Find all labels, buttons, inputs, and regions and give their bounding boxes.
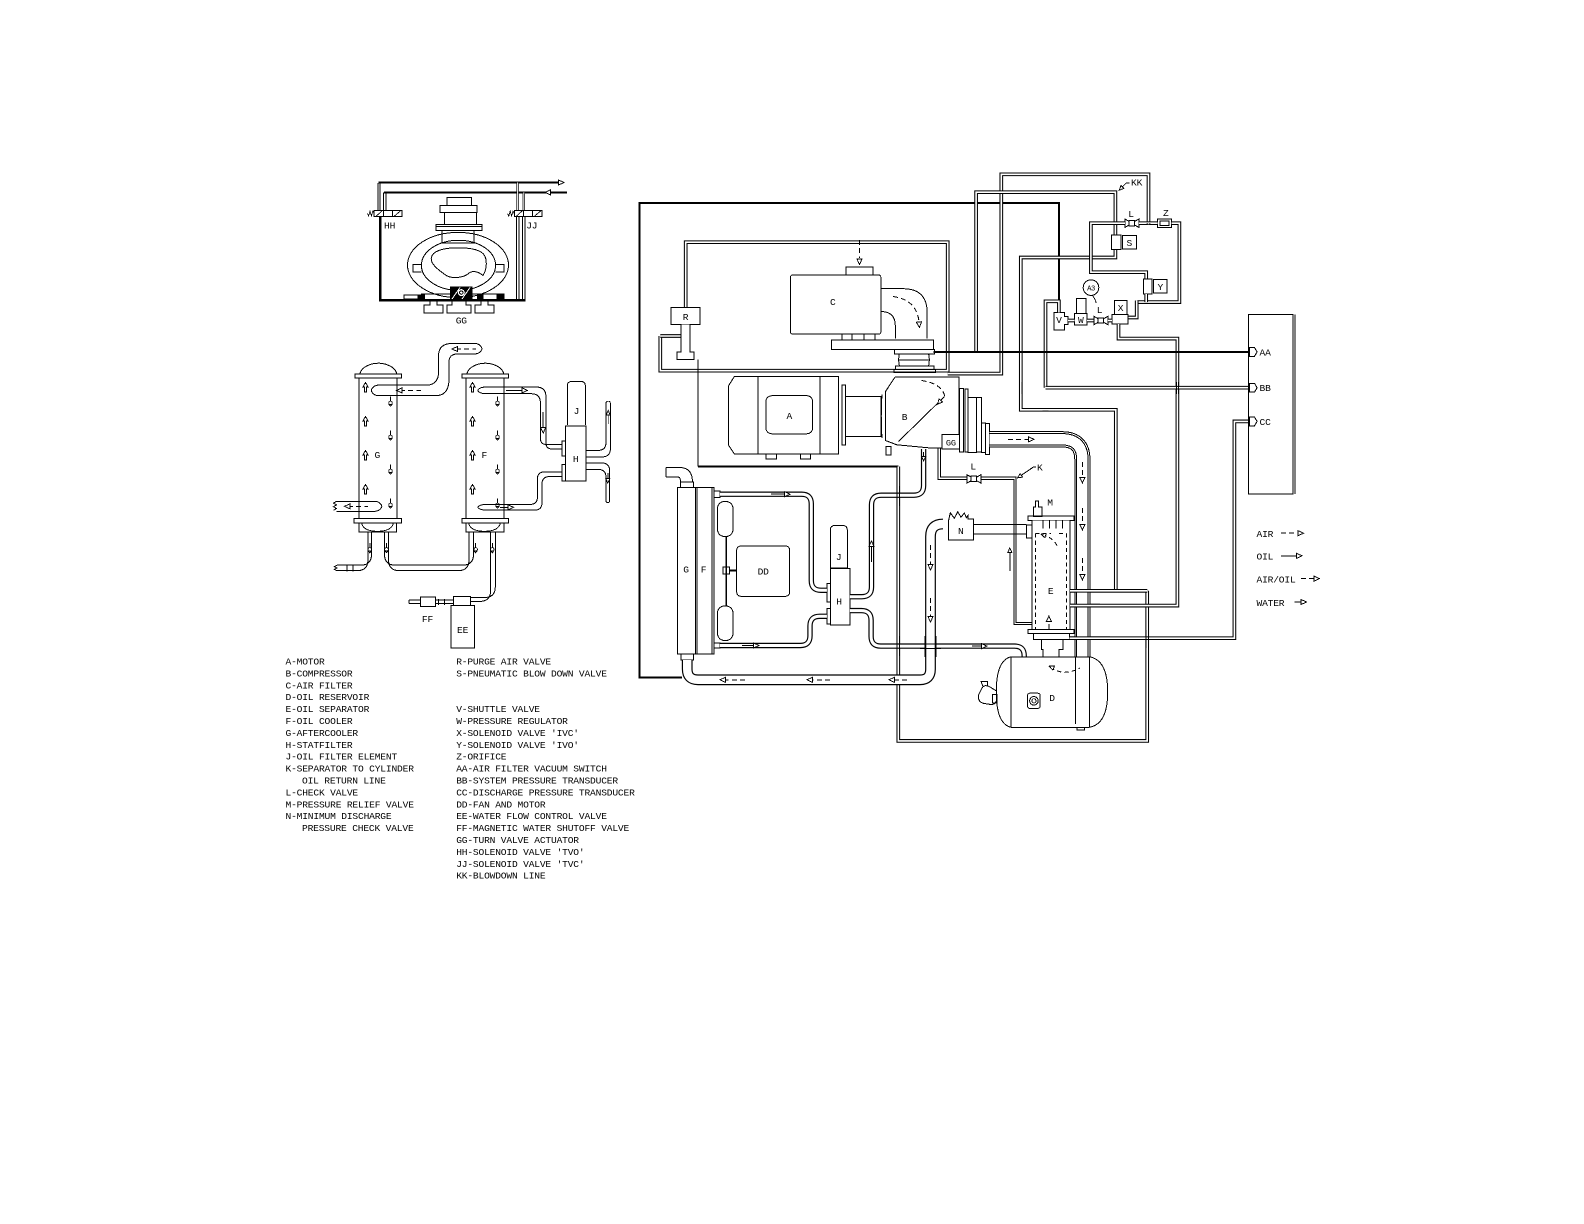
svg-text:Y: Y [1158, 282, 1164, 293]
statfilter H (left section) [566, 426, 587, 481]
radiator F upper outlet stub [714, 491, 720, 498]
svg-text:BB: BB [1260, 383, 1272, 394]
svg-text:B: B [902, 412, 908, 423]
oil arrow up to GG [869, 541, 874, 547]
svg-text:A3: A3 [1087, 286, 1095, 294]
oil arrow to D [981, 644, 987, 649]
fan hub [723, 567, 730, 574]
svg-text:JJ: JJ [526, 220, 537, 231]
oil arrow to H lower [753, 643, 759, 648]
oil flow arrow F lower [500, 506, 510, 508]
label K with leader [1018, 467, 1034, 478]
wire: R to base manifold [697, 360, 699, 467]
E inlet flange [1027, 525, 1032, 538]
svg-text:F-OIL COOLER: F-OIL COOLER [286, 716, 353, 727]
svg-text:GG-TURN VALVE ACTUATOR: GG-TURN VALVE ACTUATOR [456, 835, 579, 846]
svg-text:KK: KK [1131, 178, 1143, 189]
union tick 1 [346, 564, 348, 571]
pipe: F top outlet to H (left section) [484, 387, 546, 444]
svg-text:HH: HH [384, 220, 395, 231]
svg-text:AA-AIR FILTER VACUUM SWITCH: AA-AIR FILTER VACUUM SWITCH [456, 764, 607, 775]
compressor top cap [447, 197, 471, 205]
svg-text:W-PRESSURE REGULATOR: W-PRESSURE REGULATOR [456, 716, 568, 727]
svg-text:G-AFTERCOOLER: G-AFTERCOOLER [286, 728, 359, 739]
pipe: compressor discharge to reservoir D [990, 439, 1083, 724]
svg-text:D-OIL RESERVOIR: D-OIL RESERVOIR [286, 692, 370, 703]
aftercooler/oil cooler radiator G|F (main) [677, 487, 713, 654]
wire: drop line2 to HH [383, 192, 385, 210]
union tick [444, 599, 446, 605]
drain flange [993, 695, 997, 704]
pipe: water outlet from FF [409, 600, 420, 604]
tank swirl dashed arc [1051, 667, 1081, 672]
svg-text:L-CHECK VALVE: L-CHECK VALVE [286, 787, 359, 798]
svg-text:V: V [1056, 315, 1062, 326]
svg-text:OIL: OIL [1257, 552, 1274, 563]
motor A nameplate [766, 396, 813, 434]
fan blade lower [718, 606, 734, 641]
check valve L (top, on blowdown line) [1125, 219, 1139, 227]
C base plate [832, 340, 934, 350]
pipe: E lower right (re-stroke) [1070, 604, 1100, 608]
fan shaft [725, 537, 727, 607]
pipe: separator E upper right to loop [1070, 589, 1147, 593]
pipe: S loop leg re-stroke at BB crossing [1020, 382, 1022, 394]
compressor B body [885, 377, 958, 448]
air flow arrow in S-pipe lower [400, 389, 421, 391]
re-stroke air/oil arrows over discharge pipe [1081, 508, 1083, 526]
wire: drop line1 to HH [378, 183, 380, 211]
compressor scroll housing inner [421, 240, 495, 290]
compressor top collar [440, 205, 477, 212]
svg-text:K: K [1037, 463, 1043, 474]
oil cooler F vessel [467, 363, 504, 374]
pipe: radiator F bottom to H lower tab [720, 616, 827, 645]
scroll side notch left [413, 265, 421, 273]
radiator air inlet stub [680, 482, 693, 488]
solenoid valve Y IVO [1144, 279, 1152, 294]
wire: R left port link [660, 334, 681, 338]
H inlet tab lower [562, 465, 566, 481]
svg-text:EE-WATER FLOW CONTROL VALVE: EE-WATER FLOW CONTROL VALVE [456, 811, 607, 822]
motor A right cap [820, 376, 839, 454]
svg-text:S: S [1127, 238, 1133, 249]
C inlet nub [846, 267, 873, 275]
svg-text:V-SHUTTLE VALVE: V-SHUTTLE VALVE [456, 704, 540, 715]
aftercooler G vessel [360, 363, 397, 374]
connector AA [1249, 348, 1257, 357]
pipe: air inlet elbow to radiator G [666, 468, 692, 482]
air out arrow right [558, 180, 564, 185]
motor foot left [766, 454, 776, 459]
union tick [437, 599, 439, 605]
turn valve actuator bar [421, 294, 504, 301]
motor A left cap [729, 376, 758, 454]
solenoid valve X IVC [1114, 300, 1127, 314]
svg-text:J: J [836, 552, 842, 563]
wire: outer enclosure box [640, 203, 1059, 678]
wire: L-Z valve run [1139, 221, 1158, 225]
B inlet flange stack [895, 349, 935, 354]
check valve L (lower, V-W-X row) [1094, 316, 1108, 324]
radiator F lower outlet stub [714, 643, 720, 648]
oil reservoir D tank [996, 657, 1107, 728]
oil flow arrow down [542, 412, 544, 430]
air/oil flow arrows in discharge pipe [1008, 438, 1030, 440]
wire: V-W link [1068, 319, 1075, 323]
air in arrow left [545, 190, 551, 195]
svg-text:G: G [375, 450, 381, 461]
pipe cap right (inside F) [476, 344, 483, 354]
C foot right [864, 334, 875, 340]
pipe: water inlet to G legs [337, 532, 368, 571]
svg-text:X: X [1118, 303, 1124, 314]
wire: air filter housing box (around C) [660, 242, 947, 371]
svg-text:GG: GG [946, 439, 956, 449]
water pipe broken end [334, 565, 337, 571]
svg-text:A-MOTOR: A-MOTOR [286, 657, 325, 668]
pipe: N to separator E [973, 524, 1026, 534]
svg-text:GG: GG [456, 316, 468, 327]
svg-text:DD-FAN AND MOTOR: DD-FAN AND MOTOR [456, 799, 546, 810]
pipe: H upper right to turn valve GG [850, 449, 924, 597]
orifice Z [1158, 219, 1172, 228]
svg-text:L: L [1128, 209, 1134, 220]
E to tank neck [1043, 656, 1059, 658]
H inlet tab upper [562, 441, 566, 456]
air filter C [791, 275, 881, 334]
C outlet elbow [881, 289, 927, 339]
svg-text:H-STATFILTER: H-STATFILTER [286, 740, 353, 751]
pipe: discharge pressure loop through S [976, 192, 1115, 351]
compressor foot [886, 447, 891, 456]
union tick 2 [352, 564, 354, 571]
wire: sump loop right re-stroke at CC crossing [1146, 630, 1148, 648]
compressor neck [444, 213, 476, 225]
coupling flange [842, 385, 846, 445]
E top plate [1028, 516, 1074, 521]
pipe cap (inside F) [478, 387, 484, 394]
wire: L-X link [1108, 319, 1112, 323]
wire: BB line [1046, 386, 1250, 390]
pipe cap (inside G) [376, 501, 382, 511]
oil filter element J (left section) [567, 382, 585, 426]
svg-text:AIR/OIL: AIR/OIL [1257, 574, 1296, 585]
connector CC [1249, 417, 1257, 426]
svg-text:H: H [573, 454, 579, 465]
pipe: CC line (re-stroke) [1070, 636, 1111, 640]
wire: sump enclosure loop (left/bottom/right) [898, 467, 1147, 741]
svg-text:R-PURGE AIR VALVE: R-PURGE AIR VALVE [456, 657, 551, 668]
svg-text:HH-SOLENOID VALVE 'TVO': HH-SOLENOID VALVE 'TVO' [456, 847, 584, 858]
pipe cap (inside F) [478, 504, 484, 510]
radiator air outlet stub [681, 654, 693, 660]
pipe: X-E line re-stroke at BB crossing [1176, 382, 1178, 394]
svg-text:E: E [1048, 586, 1054, 597]
svg-text:Z: Z [1163, 208, 1169, 219]
motor foot right [800, 454, 810, 459]
compressor scroll housing outer [408, 232, 509, 297]
svg-text:KK-BLOWDOWN LINE: KK-BLOWDOWN LINE [456, 871, 546, 882]
fan motor DD [737, 546, 790, 596]
svg-text:J: J [574, 406, 580, 417]
svg-text:N: N [958, 526, 964, 537]
svg-text:D: D [1049, 693, 1055, 704]
B cap inner curve [880, 395, 883, 439]
tank foot [1077, 727, 1085, 730]
svg-text:A: A [787, 411, 793, 422]
pipe: d walls re-stroke at N crossing [920, 644, 941, 648]
oil arrow into compressor [923, 452, 925, 458]
pipe: minimum discharge valve N down to aftercooler return [687, 524, 943, 680]
solenoid valve JJ 'TVC' [508, 210, 543, 216]
control panel box [1248, 314, 1293, 494]
oil flow arrow F to H [506, 389, 524, 391]
svg-text:W: W [1078, 315, 1084, 326]
H tab lower (main) [827, 609, 830, 625]
compressor B inlet diagonal [899, 397, 945, 442]
check valve L on K line [967, 475, 981, 483]
svg-text:AA: AA [1260, 347, 1272, 358]
pipe: N feed walls re-stroke at pipe d crossing [925, 636, 936, 657]
fan motor shaft [729, 570, 736, 572]
pressure regulator W [1075, 299, 1087, 326]
dip tube into tank [1075, 657, 1077, 724]
svg-text:X-SOLENOID VALVE 'IVC': X-SOLENOID VALVE 'IVC' [456, 728, 579, 739]
pipe: S loop horizontal re-stroke at BB drop crossing [1043, 409, 1049, 412]
wire: sump loop re-stroke at pipe d crossing [897, 636, 899, 656]
wire: W-L link [1087, 319, 1095, 323]
svg-text:CC: CC [1260, 417, 1272, 428]
svg-text:M: M [1047, 498, 1053, 509]
air flow arrows in G [363, 383, 368, 393]
up flow dashed arrow in E [1048, 621, 1050, 629]
drive shaft [846, 397, 882, 437]
purge air valve R [671, 308, 700, 360]
svg-text:N-MINIMUM DISCHARGE: N-MINIMUM DISCHARGE [286, 811, 392, 822]
svg-text:Z-ORIFICE: Z-ORIFICE [456, 752, 507, 763]
pneumatic blow down valve S [1112, 235, 1122, 250]
wire: base manifold line (A/B mounting) [698, 465, 899, 467]
fan blade upper [718, 502, 734, 537]
connector BB [1249, 383, 1257, 392]
svg-text:B-COMPRESSOR: B-COMPRESSOR [286, 668, 353, 679]
compressor neck lower [442, 231, 474, 244]
wire: CC line from E bottom [1070, 421, 1250, 638]
sight glass [1028, 693, 1041, 708]
svg-text:F: F [701, 565, 707, 576]
arrowhead on diagonal [938, 399, 943, 404]
wire: solenoid supply line 2 [384, 191, 567, 193]
wire: V top tap to BB drop [1046, 301, 1059, 387]
pipe: E upper right (re-stroke) [1070, 589, 1147, 593]
svg-text:M-PRESSURE RELIEF VALVE: M-PRESSURE RELIEF VALVE [286, 799, 415, 810]
pipe: EE to FF [436, 600, 454, 604]
wire: drop line2 to JJ [523, 192, 525, 210]
wire: JJ down leg 1 [516, 217, 518, 299]
svg-text:EE: EE [457, 625, 469, 636]
oil arrow to H [784, 492, 790, 497]
swirl arc in E [1043, 535, 1058, 547]
turn valve actuator GG tag [942, 434, 959, 449]
svg-text:S-PNEUMATIC BLOW DOWN VALVE: S-PNEUMATIC BLOW DOWN VALVE [456, 668, 607, 679]
leader A3 to L [1093, 296, 1097, 304]
pipe: G right leg to F left leg (water U) [385, 532, 474, 565]
svg-text:R: R [683, 312, 689, 323]
air flow arc in elbow [893, 297, 919, 321]
oil flow arrows in F [470, 383, 475, 393]
svg-text:L: L [1097, 305, 1103, 316]
svg-text:AIR: AIR [1257, 529, 1274, 540]
svg-text:H: H [836, 597, 842, 608]
oil return up arrow [1009, 551, 1011, 571]
svg-text:FF-MAGNETIC WATER SHUTOFF VALV: FF-MAGNETIC WATER SHUTOFF VALVE [456, 823, 629, 834]
E element dashed boundary [1035, 534, 1066, 630]
air inlet arrow above C [859, 240, 861, 258]
svg-text:F: F [482, 450, 488, 461]
svg-text:WATER: WATER [1257, 598, 1285, 609]
wire: drop line1 to JJ [516, 183, 518, 211]
C foot left [842, 334, 852, 340]
solenoid valve HH 'TVO' [367, 210, 402, 216]
pipe: H upper right vent [586, 404, 610, 457]
pipe: blowdown KK loop [948, 174, 1149, 373]
compressor flange [436, 224, 482, 230]
svg-text:E-OIL SEPARATOR: E-OIL SEPARATOR [286, 704, 370, 715]
compressor scroll profile [431, 248, 486, 278]
motor A body [758, 376, 820, 454]
pipe: radiator F top to H upper tab [720, 494, 827, 590]
air flow arrow in S-pipe upper [456, 348, 476, 350]
air flow arrow in G discharge [348, 505, 368, 507]
minimum discharge pressure check valve N [949, 512, 974, 540]
svg-text:PRESSURE CHECK VALVE: PRESSURE CHECK VALVE [302, 823, 414, 834]
wire: AA line (system pressure) [934, 351, 1250, 353]
H tab upper (main) [827, 584, 830, 602]
svg-text:BB-SYSTEM PRESSURE TRANSDUCER: BB-SYSTEM PRESSURE TRANSDUCER [456, 776, 618, 787]
svg-text:CC-DISCHARGE PRESSURE TRANSDUC: CC-DISCHARGE PRESSURE TRANSDUCER [456, 787, 635, 798]
actuator mounting feet [424, 301, 443, 313]
svg-text:G: G [683, 565, 689, 576]
scroll side notch right [496, 265, 504, 273]
svg-text:JJ-SOLENOID VALVE 'TVC': JJ-SOLENOID VALVE 'TVC' [456, 859, 584, 870]
pipe: junction row to X [1128, 301, 1137, 318]
pipe: X body to E lower right port [1070, 324, 1177, 606]
shuttle valve V [1054, 313, 1068, 331]
svg-text:K-SEPARATOR TO CYLINDER: K-SEPARATOR TO CYLINDER [286, 764, 415, 775]
svg-text:L: L [970, 462, 976, 473]
pressure relief valve M [1034, 501, 1043, 516]
statfilter H (main) [830, 569, 850, 625]
wire: enclosure box around compressor end view [380, 217, 525, 300]
air flow arrows down in N pipe [930, 545, 932, 566]
pipe: air discharge from G [337, 501, 376, 511]
pipe: H lower right to reservoir D [850, 611, 1024, 657]
water flow control valve EE [454, 596, 471, 605]
air swirl arc in B [922, 381, 945, 397]
label KK with leader [1119, 183, 1126, 190]
air flow arrows left in return pipe [724, 679, 745, 681]
broken pipe end [334, 501, 337, 510]
svg-text:FF: FF [422, 614, 434, 625]
svg-text:Y-SOLENOID VALVE 'IVO': Y-SOLENOID VALVE 'IVO' [456, 740, 579, 751]
E bottom flange [1028, 630, 1074, 634]
svg-text:C: C [830, 297, 836, 308]
pipe: K separator-to-cylinder oil return [938, 449, 1032, 625]
pipe cap left (inside G) [371, 385, 377, 395]
E bottom plate [1034, 633, 1070, 639]
pipe: F lower outlet to H lower tab (left section) [484, 472, 562, 505]
drain fitting [978, 686, 996, 705]
pipe: manifold sub-box left leg [1091, 223, 1146, 279]
pipe: Z down to junction row [1137, 223, 1180, 302]
svg-text:DD: DD [758, 567, 770, 578]
E drain neck [1041, 639, 1063, 656]
svg-text:C-AIR FILTER: C-AIR FILTER [286, 680, 353, 691]
wire: JJ down leg 2 [523, 217, 525, 299]
oil filter element J (main) [830, 526, 847, 569]
gauge A3 [1083, 280, 1099, 296]
wire: solenoid supply line 1 (top) [379, 182, 558, 184]
wire: sump loop re-stroke at pipe b crossing [897, 486, 899, 506]
svg-text:J-OIL FILTER ELEMENT: J-OIL FILTER ELEMENT [286, 752, 398, 763]
discharge flange bars [960, 388, 964, 451]
down arrow in drain pipe [607, 473, 609, 480]
pipe: Y down to junction row [1144, 294, 1148, 302]
water drop arrows in legs [369, 543, 371, 548]
pipe: F right leg down to EE [471, 532, 491, 602]
up arrow in vent pipe [607, 413, 609, 424]
pipe: air crossover F to G (S-pipe) [378, 344, 476, 386]
magnetic water shutoff valve FF [421, 597, 436, 607]
pipe: H lower right drain [586, 463, 610, 501]
svg-text:OIL RETURN LINE: OIL RETURN LINE [302, 776, 386, 787]
